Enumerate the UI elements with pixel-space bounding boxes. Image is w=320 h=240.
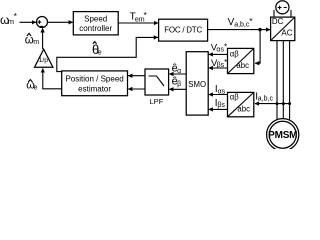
svg-text:abc: abc — [236, 61, 249, 70]
svg-text:*: * — [224, 58, 227, 67]
block DC/AC inverter — [271, 17, 295, 40]
minus sign — [40, 25, 43, 27]
junction dot phase a current tap — [276, 102, 279, 105]
node I-beta-s label — [215, 98, 226, 109]
integrator 1/p triangle — [35, 49, 53, 67]
wire filtered e-beta LPF to estimator — [128, 88, 145, 90]
svg-text:SMO: SMO — [188, 80, 206, 89]
plus sign — [38, 20, 42, 24]
node wm* reference speed label — [0, 11, 18, 27]
svg-text:*: * — [224, 42, 227, 51]
wire DC source left lead — [273, 10, 275, 17]
svg-text:estimator: estimator — [78, 84, 111, 93]
wire I-alpha-s to SMO — [209, 94, 228, 96]
node Va,b,c* label — [228, 16, 254, 28]
node V-alpha-s* label — [211, 42, 227, 53]
wire phase b line inverter to PMSM — [282, 41, 284, 119]
svg-text:a,b,c: a,b,c — [234, 21, 250, 28]
summing junction S1 — [37, 17, 48, 28]
svg-text:AC: AC — [281, 29, 292, 38]
wire e-alpha estimate SMO to LPF — [169, 73, 186, 75]
voltage transform diagonal — [228, 48, 254, 73]
svg-text:αβ: αβ — [230, 93, 240, 102]
svg-text:FOC / DTC: FOC / DTC — [164, 26, 202, 35]
node theta-e-hat label — [92, 42, 102, 58]
DC source minus — [284, 7, 287, 9]
svg-text:PMSM: PMSM — [268, 130, 297, 141]
svg-text:m: m — [33, 39, 39, 46]
motor PMSM — [267, 119, 299, 151]
wire I-beta-s to SMO — [209, 108, 228, 110]
DC source plus — [278, 6, 282, 10]
wire theta-e-hat estimator to FOC/DTC — [57, 37, 158, 71]
block current abc to alphabeta transform — [228, 92, 254, 116]
DC source V1 — [276, 1, 289, 14]
svg-text:αs: αs — [218, 88, 226, 95]
svg-text:*: * — [14, 11, 18, 21]
svg-text:DC: DC — [272, 17, 284, 26]
svg-text:αβ: αβ — [230, 50, 240, 59]
wire Iabc measurement tap to abc->alphabeta box — [255, 103, 290, 105]
node omega-e-hat label — [26, 80, 37, 92]
svg-text:β: β — [177, 81, 181, 88]
wire e-beta estimate SMO to LPF — [169, 88, 186, 90]
wire DC source right lead — [290, 10, 292, 17]
svg-text:abc: abc — [237, 104, 250, 113]
svg-text:Position / Speed: Position / Speed — [65, 74, 123, 83]
wire Vabc* FOC/DTC to inverter — [208, 29, 271, 31]
node I-alpha-s label — [215, 84, 226, 95]
junction dot phase c current tap — [288, 102, 291, 105]
node Ia,b,c label — [255, 92, 273, 103]
wire V-beta-s* to SMO — [209, 67, 228, 69]
wire phase c line inverter to PMSM — [289, 41, 291, 121]
block SMO sliding mode observer — [186, 52, 208, 115]
svg-text:α: α — [177, 68, 181, 75]
node e-alpha-hat label — [172, 63, 182, 76]
wire omega-e-hat estimator to integrator 1/p — [43, 69, 62, 89]
block voltage abc to alphabeta transform — [228, 48, 254, 73]
svg-text:βs: βs — [217, 102, 225, 109]
wire Tem* speed controller to FOC/DTC — [118, 22, 158, 24]
node V-beta-s* label — [211, 58, 227, 69]
wire integrator to summing junction feedback — [42, 28, 44, 49]
LPF response icon — [149, 76, 165, 86]
svg-text:e: e — [34, 84, 38, 91]
junction dot phase b current tap — [282, 102, 285, 105]
svg-text:*: * — [144, 10, 148, 20]
wire wm* input to summing junction — [20, 21, 37, 23]
wire filtered e-alpha LPF to estimator — [128, 75, 145, 77]
block position / speed estimator — [62, 71, 128, 96]
block LPF low pass filter — [145, 69, 169, 95]
inverter diagonal — [271, 17, 295, 40]
wire summing junction to speed controller — [48, 21, 73, 23]
current transform diagonal — [228, 92, 254, 116]
block speed controller — [73, 12, 118, 35]
wire phase a line inverter to PMSM — [276, 41, 278, 120]
svg-text:controller: controller — [79, 24, 112, 33]
svg-text:LPF: LPF — [150, 97, 164, 106]
node e-beta-hat label — [172, 75, 182, 87]
svg-text:Speed: Speed — [84, 14, 107, 23]
svg-text:*: * — [249, 16, 253, 26]
junction dot on Vabc* wire — [258, 28, 261, 31]
wire V-alpha-s* to SMO — [209, 53, 228, 55]
wire Vabc* branch down into voltage transform — [255, 30, 260, 64]
svg-text:a,b,c: a,b,c — [258, 96, 274, 103]
node Tem* label — [130, 10, 148, 23]
block FOC / DTC — [159, 19, 208, 41]
node omega-m-hat label — [25, 33, 40, 46]
svg-text:1/p: 1/p — [39, 57, 49, 64]
svg-text:e: e — [98, 50, 102, 57]
